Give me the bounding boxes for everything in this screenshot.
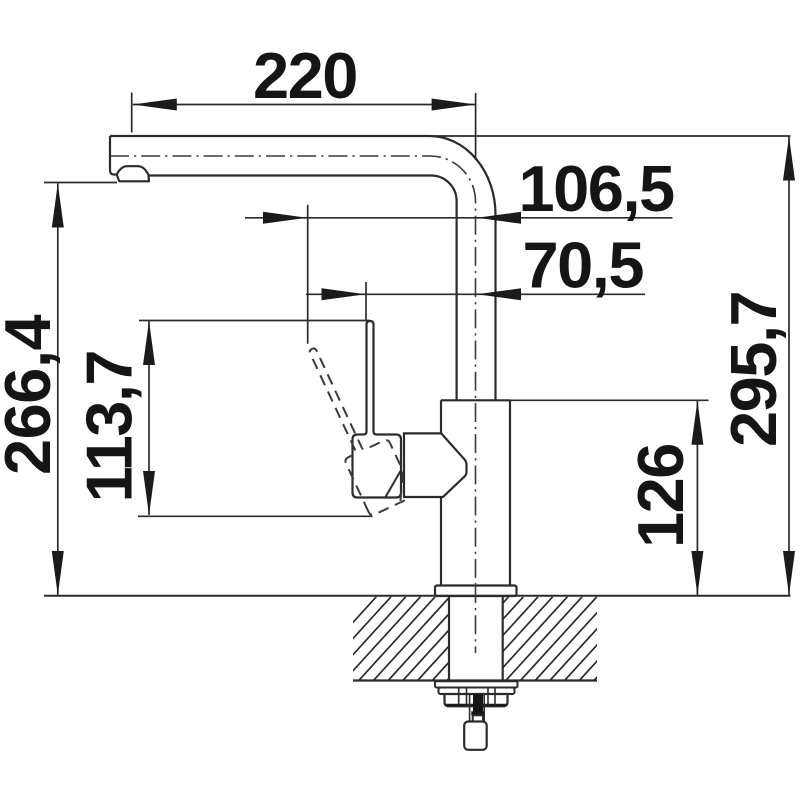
faucet spout tip left edge xyxy=(110,136,117,175)
dimension 220 extension line left xyxy=(131,93,133,133)
cartridge boss (pentagon) on body xyxy=(404,433,467,497)
countertop section hatch (right block) xyxy=(300,597,685,681)
dimension 106,5 line with tails xyxy=(245,217,673,219)
dimension 113,7 top arrow xyxy=(143,321,155,365)
svg-text:126: 126 xyxy=(624,444,697,548)
faucet spout top edge and outer bend xyxy=(110,136,496,400)
hose end connector xyxy=(464,722,487,750)
dimension 113,7 line xyxy=(148,321,150,515)
dimension 295,7 line xyxy=(788,137,790,596)
dimension 70,5 line with tails xyxy=(306,293,645,295)
nut facet lines xyxy=(459,688,495,706)
dimension 70,5 right arrow (outside, pointing left) xyxy=(477,288,521,300)
dimension 113,7 bottom arrow xyxy=(143,471,155,515)
mounting nut with facets xyxy=(445,694,508,706)
faucet body left edge upper xyxy=(440,400,442,433)
lever handle dashed (tilted position) xyxy=(296,336,415,516)
svg-text:70,5: 70,5 xyxy=(523,229,644,302)
dimension 266,4 extension line top xyxy=(44,182,117,184)
dimension 70,5 extension line xyxy=(365,282,367,320)
dimension 113,7 extension line bottom xyxy=(138,515,373,517)
dimension 220 line xyxy=(133,104,476,106)
dimension 295,7 extension line top (spout top extended) xyxy=(430,135,791,137)
svg-text:220: 220 xyxy=(253,39,357,112)
lever handle solid (upright) with rod xyxy=(353,321,402,498)
dimension 295,7 top arrow xyxy=(783,137,795,181)
svg-text:113,7: 113,7 xyxy=(73,351,146,503)
dimension 220 extension line right xyxy=(475,93,477,160)
dimension 126 bottom arrow xyxy=(691,551,703,595)
dimension 126 line xyxy=(696,401,698,595)
collar ring xyxy=(439,688,515,695)
dimension 126 top arrow xyxy=(691,401,703,445)
dimension 126 extension line top xyxy=(510,399,709,401)
dimension 266,4 top arrow xyxy=(52,184,64,228)
faucet body shoulder xyxy=(441,399,510,401)
dimension 220 right arrow xyxy=(432,99,476,111)
dimension 295,7 bottom arrow xyxy=(783,551,795,595)
threaded shank through countertop left edge xyxy=(448,597,450,682)
faucet centerline lower segment xyxy=(475,584,477,653)
hose coupling small piece xyxy=(473,715,483,721)
dimension 266,4 bottom arrow xyxy=(52,551,64,595)
dimension 106,5 extension line xyxy=(307,205,309,344)
faucet body left edge lower xyxy=(440,497,442,586)
dimension 70,5 left arrow (outside, pointing right) xyxy=(322,288,366,300)
faucet body right edge xyxy=(509,400,511,585)
faucet spout centerline (dash-dot) xyxy=(110,156,476,584)
base flange xyxy=(435,586,517,597)
hose nipple (black) xyxy=(473,694,483,712)
dimension 106,5 right arrow (outside, pointing left) xyxy=(477,212,521,224)
countertop bottom line xyxy=(353,679,597,681)
svg-text:295,7: 295,7 xyxy=(717,292,790,447)
lever handle face crease line xyxy=(386,471,401,497)
hose guide tube edges xyxy=(469,694,471,722)
dimension 106,5 left arrow (outside, pointing right) xyxy=(263,212,307,224)
dimension 266,4 line xyxy=(57,184,59,596)
svg-text:266,4: 266,4 xyxy=(0,314,64,475)
threaded shank through countertop right edge xyxy=(502,597,504,682)
washer plate under counter xyxy=(435,681,518,687)
dimension 113,7 extension line top xyxy=(139,320,370,322)
countertop surface line xyxy=(44,595,791,597)
countertop section hatch (left block) xyxy=(300,597,685,681)
svg-text:106,5: 106,5 xyxy=(519,152,675,225)
faucet spout bottom edge and inner bend xyxy=(148,175,456,400)
aerator outlet dome at spout tip xyxy=(117,166,149,181)
dimension 220 left arrow xyxy=(133,99,177,111)
hose stop washer (black) xyxy=(471,711,484,715)
